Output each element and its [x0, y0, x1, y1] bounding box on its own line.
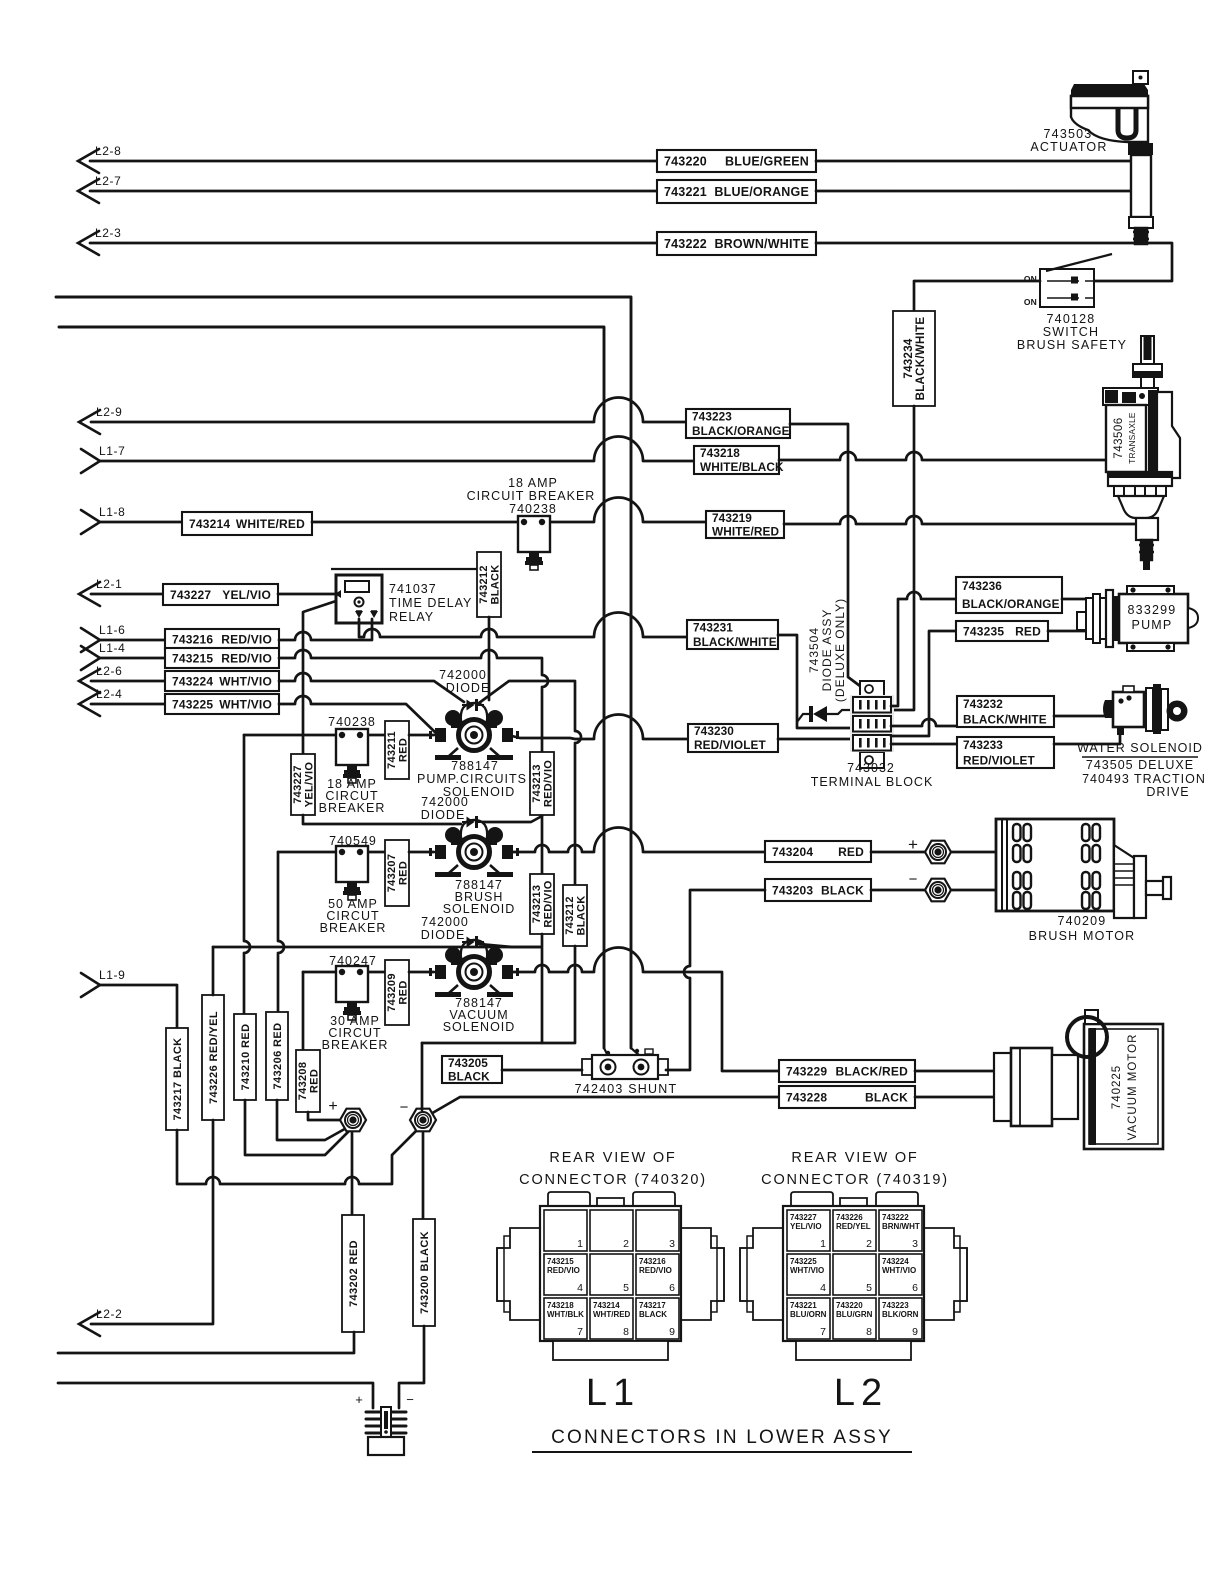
wire relay to label 743231: [359, 613, 687, 638]
svg-text:743217: 743217: [639, 1301, 666, 1310]
svg-text:BLK/ORN: BLK/ORN: [882, 1310, 919, 1319]
svg-text:743221: 743221: [664, 185, 707, 199]
svg-text:BLACK: BLACK: [448, 1069, 490, 1083]
svg-text:L2-6: L2-6: [96, 664, 122, 678]
svg-text:743213: 743213: [531, 764, 543, 803]
svg-text:L1-6: L1-6: [99, 623, 125, 637]
switch 740128 brush safety: [1040, 254, 1112, 307]
svg-text:788147: 788147: [451, 759, 499, 773]
connector pin arrow L2-7: [78, 174, 121, 203]
svg-text:743211: 743211: [386, 731, 398, 769]
svg-text:L1: L1: [586, 1372, 640, 1414]
svg-text:BREAKER: BREAKER: [320, 921, 387, 935]
wire label 743203 BLACK: [765, 879, 871, 901]
svg-text:740209: 740209: [1058, 914, 1107, 928]
wire label 743231 BLACK/WHITE: [687, 620, 778, 649]
wire label 743204 RED: [765, 841, 871, 862]
wire bus B (right vertical bus): [56, 297, 631, 1048]
wire relay to 743227 vertical label: [303, 601, 336, 754]
svg-text:RED/VIO: RED/VIO: [543, 880, 555, 927]
svg-text:ACTUATOR: ACTUATOR: [1030, 140, 1107, 154]
wire L1-6 to label: [100, 639, 165, 642]
wire label 743224 WHT/VIO: [165, 671, 279, 691]
wire brush row corner down to 743206: [278, 852, 284, 1012]
svg-text:WHITE/BLACK: WHITE/BLACK: [700, 460, 784, 474]
svg-text:L2-7: L2-7: [95, 174, 121, 188]
wire label 743208 RED: [296, 1050, 321, 1112]
wire vacuum diode to 947 line: [479, 944, 512, 947]
wire terminal block row1 to 743236: [891, 592, 956, 706]
svg-text:743217 BLACK: 743217 BLACK: [172, 1037, 184, 1120]
svg-text:DIODE: DIODE: [421, 808, 466, 822]
diode assy 743504 (deluxe only): [797, 706, 854, 722]
wire 743208 to plus stud: [308, 1112, 341, 1120]
wire 743211 to pump solenoid: [409, 734, 434, 737]
wire L2-8 to label: [90, 160, 657, 163]
svg-text:L2-9: L2-9: [96, 405, 122, 419]
svg-text:−: −: [400, 1099, 409, 1116]
svg-text:RED: RED: [1015, 624, 1041, 638]
svg-text:5: 5: [623, 1282, 629, 1294]
wire label 743202 RED: [342, 1215, 364, 1332]
svg-text:(DELUXE ONLY): (DELUXE ONLY): [833, 598, 847, 702]
svg-text:SWITCH: SWITCH: [1043, 325, 1100, 339]
wire 743221 to actuator: [816, 190, 1131, 193]
svg-text:BLACK/RED: BLACK/RED: [836, 1064, 909, 1078]
svg-text:L2: L2: [834, 1372, 888, 1414]
wire 743207 to brush solenoid: [409, 851, 434, 854]
wire label 743220 BLUE/GREEN: [657, 150, 816, 172]
svg-text:BLACK: BLACK: [490, 565, 502, 605]
wire 743200 to charger plug minus: [399, 1326, 424, 1408]
svg-text:RED: RED: [398, 738, 410, 762]
svg-text:VACUUM MOTOR: VACUUM MOTOR: [1127, 1034, 1139, 1141]
wire terminal block row3 to 743233: [891, 743, 957, 746]
svg-text:BRUSH MOTOR: BRUSH MOTOR: [1029, 929, 1136, 943]
svg-text:743226 RED/YEL: 743226 RED/YEL: [208, 1011, 220, 1104]
svg-text:743506: 743506: [1113, 417, 1125, 458]
svg-text:RED: RED: [398, 861, 410, 885]
svg-text:DIODE: DIODE: [446, 681, 491, 695]
solenoid 788147 brush: [429, 820, 519, 877]
wire label 743212 BLACK (upper): [477, 552, 502, 617]
svg-text:743204: 743204: [772, 845, 813, 859]
battery charger plug symbol: [366, 1407, 406, 1455]
wire 743223 to terminal block tab: [790, 424, 860, 686]
wire 743205 to shunt: [502, 1069, 582, 1072]
svg-text:833299: 833299: [1128, 603, 1177, 617]
wire label 743227 YEL/VIO: [163, 584, 278, 605]
svg-text:ON: ON: [1024, 274, 1037, 284]
terminal stud plus (brush motor): [925, 841, 951, 864]
transaxle 743506 symbol: [1103, 336, 1180, 570]
wire label 743209 RED: [385, 960, 410, 1025]
wire L1-4 to label: [100, 657, 165, 660]
svg-text:YEL/VIO: YEL/VIO: [304, 762, 316, 808]
wire 743225 to pump row: [279, 696, 438, 735]
wire label 743205 BLACK: [442, 1056, 502, 1084]
wire 947 feeder (743226 to solenoid diodes): [213, 946, 540, 949]
svg-text:743223: 743223: [692, 409, 732, 423]
svg-text:743235: 743235: [963, 624, 1004, 638]
svg-text:743218: 743218: [700, 446, 740, 460]
wire label 743213 RED/VIO (upper): [530, 752, 555, 815]
svg-text:3: 3: [912, 1238, 918, 1250]
diode 742000 (vacuum): [462, 936, 484, 948]
svg-text:743231: 743231: [693, 620, 733, 634]
battery stud minus: [410, 1109, 436, 1132]
circuit breaker 740549 (50 amp): [336, 846, 368, 900]
svg-text:BLACK/WHITE: BLACK/WHITE: [963, 712, 1047, 726]
svg-text:743209: 743209: [386, 973, 398, 1012]
svg-text:L1-4: L1-4: [99, 641, 125, 655]
svg-text:742000: 742000: [421, 915, 469, 929]
svg-text:BLUE/ORANGE: BLUE/ORANGE: [714, 185, 809, 199]
svg-text:L1-9: L1-9: [99, 968, 125, 982]
wire label 743212 BLACK (lower): [563, 885, 588, 946]
actuator 743503 symbol: [1071, 71, 1153, 244]
svg-text:740238: 740238: [509, 502, 557, 516]
svg-text:742403 SHUNT: 742403 SHUNT: [575, 1082, 678, 1096]
wire pump row from corner to breaker: [244, 734, 385, 737]
svg-text:743223: 743223: [882, 1301, 909, 1310]
water solenoid symbol: [1103, 684, 1188, 735]
wire minus terminal to brush motor: [951, 889, 996, 892]
wire riser into minus stud: [421, 1043, 424, 1110]
wire label 743234 BLACK/WHITE: [893, 311, 935, 406]
svg-text:740128: 740128: [1047, 312, 1096, 326]
wire brush row from corner to breaker: [278, 851, 385, 854]
svg-text:743208: 743208: [297, 1062, 309, 1101]
svg-text:YEL/VIO: YEL/VIO: [222, 588, 271, 602]
svg-text:WHT/VIO: WHT/VIO: [882, 1266, 916, 1275]
wire label 743228 BLACK: [779, 1086, 915, 1108]
wire label 743213 RED/VIO (lower): [530, 874, 555, 934]
wire label 743221 BLUE/ORANGE: [657, 180, 816, 203]
wire 743229 to vacuum motor: [915, 1070, 994, 1073]
svg-text:743212: 743212: [478, 565, 490, 604]
svg-text:L2-4: L2-4: [96, 687, 122, 701]
svg-text:743205: 743205: [448, 1056, 488, 1070]
wire L2-7 to label: [90, 190, 657, 193]
svg-text:−: −: [909, 871, 918, 888]
svg-text:743218: 743218: [547, 1301, 574, 1310]
svg-text:YEL/VIO: YEL/VIO: [790, 1222, 822, 1231]
circuit breaker 740238 (18 amp, top): [518, 516, 550, 570]
svg-text:5: 5: [866, 1282, 872, 1294]
wire label 743227 YEL/VIO (vertical): [291, 754, 316, 815]
svg-text:4: 4: [577, 1282, 583, 1294]
svg-text:743228: 743228: [786, 1090, 827, 1104]
svg-text:4: 4: [820, 1282, 826, 1294]
svg-text:740493 TRACTION: 740493 TRACTION: [1082, 772, 1206, 786]
svg-text:743222: 743222: [664, 237, 707, 251]
svg-text:743214: 743214: [593, 1301, 620, 1310]
connector pin arrow L1-9: [81, 968, 125, 997]
svg-text:L1-7: L1-7: [99, 444, 125, 458]
svg-text:BROWN/WHITE: BROWN/WHITE: [714, 237, 809, 251]
svg-text:WHT/RED: WHT/RED: [593, 1310, 631, 1319]
svg-text:6: 6: [669, 1282, 675, 1294]
wire label 743232 BLACK/WHITE: [957, 696, 1054, 727]
svg-text:743224: 743224: [172, 674, 213, 688]
svg-text:DIODE: DIODE: [421, 928, 466, 942]
svg-text:743227: 743227: [790, 1213, 817, 1222]
connector pin arrow L1-7: [81, 444, 125, 473]
wire L1-9 to label 743217: [100, 985, 177, 1028]
svg-text:CONNECTOR (740320): CONNECTOR (740320): [519, 1172, 707, 1188]
svg-text:REAR VIEW OF: REAR VIEW OF: [549, 1150, 676, 1166]
svg-text:9: 9: [669, 1326, 675, 1338]
pump 833299 symbol: [1077, 586, 1198, 651]
wire label 743236 BLACK/ORANGE: [956, 577, 1062, 613]
shunt 742403 symbol: [582, 1048, 668, 1079]
svg-text:743220: 743220: [836, 1301, 863, 1310]
svg-text:743504: 743504: [807, 627, 821, 673]
svg-text:743203: 743203: [772, 883, 813, 897]
svg-text:743227: 743227: [292, 765, 304, 804]
wire 743213 to 947 line and down: [512, 934, 542, 1043]
svg-text:WHT/VIO: WHT/VIO: [219, 674, 272, 688]
wire minus stud down to 743200: [422, 1133, 425, 1219]
wire 743227 to relay: [278, 593, 336, 596]
wire 743212 to pump diode: [488, 617, 491, 700]
svg-text:743503: 743503: [1044, 127, 1093, 141]
wire 743213 to brush diode: [480, 816, 542, 822]
svg-text:DRIVE: DRIVE: [1146, 785, 1189, 799]
wire label 743210 RED: [234, 1014, 256, 1100]
svg-text:BLACK/WHITE: BLACK/WHITE: [915, 317, 927, 401]
wire 743212 to negative stud riser: [422, 946, 575, 1043]
connector pin arrow L2-1: [79, 577, 122, 606]
svg-text:WHT/BLK: WHT/BLK: [547, 1310, 584, 1319]
svg-text:RED: RED: [309, 1069, 321, 1093]
svg-text:743206 RED: 743206 RED: [272, 1023, 284, 1090]
svg-text:743225: 743225: [172, 697, 213, 711]
wire 743215 to pump solenoid junction: [279, 650, 548, 737]
wire label 743211 RED: [385, 721, 410, 779]
wire brush solenoid to label 743204: [508, 827, 765, 852]
wire label 743206 RED: [266, 1012, 288, 1100]
wire 743226 to L2-2: [91, 1120, 213, 1324]
svg-text:TERMINAL BLOCK: TERMINAL BLOCK: [811, 775, 934, 789]
wire bus A (left vertical bus): [59, 327, 604, 1048]
svg-text:PUMP: PUMP: [1132, 618, 1173, 632]
wire 743232 to water solenoid: [1054, 715, 1113, 718]
wire terminal block row2 to 743232: [891, 719, 957, 726]
connector pin arrow L2-4: [79, 687, 122, 716]
svg-text:743219: 743219: [712, 511, 752, 525]
svg-text:743234: 743234: [903, 338, 915, 378]
wire vacuum row corner down to 743208: [302, 972, 305, 1050]
wire label 743229 BLACK/RED: [779, 1060, 915, 1082]
svg-text:L2-3: L2-3: [95, 226, 121, 240]
svg-text:743225: 743225: [790, 1257, 817, 1266]
svg-text:3: 3: [669, 1238, 675, 1250]
wire 743228 to vacuum motor: [915, 1096, 994, 1099]
connector pin arrow L1-6: [81, 623, 125, 652]
connector pin arrow L2-2: [79, 1307, 122, 1336]
svg-text:743207: 743207: [386, 854, 398, 893]
wire 743203 to minus terminal: [871, 889, 925, 892]
relay 741037 time delay: [331, 569, 477, 623]
svg-text:REAR VIEW OF: REAR VIEW OF: [791, 1150, 918, 1166]
svg-text:BREAKER: BREAKER: [322, 1038, 389, 1052]
wire label 743200 BLACK: [413, 1219, 435, 1326]
svg-text:BREAKER: BREAKER: [319, 801, 386, 815]
svg-text:743032: 743032: [847, 761, 895, 775]
svg-text:−: −: [406, 1392, 414, 1407]
svg-text:743212: 743212: [564, 896, 576, 935]
svg-text:743224: 743224: [882, 1257, 909, 1266]
svg-text:8: 8: [623, 1326, 629, 1338]
wire 743227 to brush solenoid diode: [303, 815, 461, 824]
svg-text:+: +: [328, 1098, 337, 1115]
svg-text:9: 9: [912, 1326, 918, 1338]
wire label 743222 BROWN/WHITE: [657, 232, 816, 255]
wire 743234 to switch: [914, 281, 1040, 311]
wire plus terminal to brush motor: [951, 851, 996, 854]
svg-text:743213: 743213: [531, 885, 543, 924]
svg-text:1: 1: [820, 1238, 826, 1250]
wire 743214 to breaker and label 743219: [312, 498, 706, 523]
svg-text:743222: 743222: [882, 1213, 909, 1222]
svg-text:743216: 743216: [172, 632, 213, 646]
svg-text:TRANSAXLE: TRANSAXLE: [1128, 412, 1137, 464]
svg-text:BLACK: BLACK: [576, 896, 588, 936]
svg-text:743505 DELUXE: 743505 DELUXE: [1086, 758, 1194, 772]
wire label 743226 RED/YEL: [202, 995, 224, 1120]
wire minus stud to label 743228: [429, 1097, 779, 1115]
wire junction 743215 to 743213: [541, 737, 544, 752]
svg-text:BLACK/ORANGE: BLACK/ORANGE: [962, 597, 1060, 611]
wire 743202 to lower left: [58, 1332, 354, 1353]
wire label 743214 WHITE/RED: [182, 512, 312, 535]
wire 743209 to vacuum solenoid: [409, 971, 434, 974]
wire 743210 to plus stud: [245, 1100, 352, 1155]
svg-text:WHITE/RED: WHITE/RED: [712, 524, 779, 538]
diode 742000 (brush): [462, 816, 484, 828]
svg-text:7: 7: [820, 1326, 826, 1338]
svg-text:742000: 742000: [421, 795, 469, 809]
svg-text:BRN/WHT: BRN/WHT: [882, 1222, 920, 1231]
wire label 743219 WHITE/RED: [706, 511, 784, 539]
svg-text:743221: 743221: [790, 1301, 817, 1310]
svg-text:743202 RED: 743202 RED: [348, 1240, 360, 1307]
svg-text:+: +: [355, 1392, 363, 1407]
svg-text:743229: 743229: [786, 1064, 827, 1078]
wire label 743223 BLACK/ORANGE: [686, 409, 790, 438]
svg-text:WHT/VIO: WHT/VIO: [790, 1266, 824, 1275]
wire plus stud down to 743202: [351, 1133, 354, 1215]
svg-text:743216: 743216: [639, 1257, 666, 1266]
svg-text:RED/VIO: RED/VIO: [543, 760, 555, 807]
wire 743218 to transaxle: [779, 452, 1106, 460]
svg-text:RED: RED: [398, 980, 410, 1004]
svg-text:743226: 743226: [836, 1213, 863, 1222]
svg-text:TIME DELAY: TIME DELAY: [389, 596, 472, 610]
wire L2-1 to label: [91, 593, 163, 596]
wire pump diode to 743212 lower: [479, 681, 581, 885]
wire 743213 down past brush row: [541, 816, 544, 874]
battery stud plus: [340, 1109, 366, 1132]
wire label 743230 RED/VIOLET: [688, 724, 778, 752]
svg-text:BLU/ORN: BLU/ORN: [790, 1310, 827, 1319]
wire label 743233 RED/VIOLET: [957, 737, 1054, 768]
wire vacuum row from corner to breaker: [303, 971, 385, 974]
wire L1-7 to label 743218: [100, 437, 694, 462]
svg-text:CIRCUIT BREAKER: CIRCUIT BREAKER: [467, 489, 596, 503]
wire label 743207 RED: [385, 840, 410, 906]
wire L2-6 to label: [91, 680, 165, 683]
svg-text:ON: ON: [1024, 297, 1037, 307]
svg-text:2: 2: [866, 1238, 872, 1250]
svg-text:RELAY: RELAY: [389, 610, 434, 624]
brush motor 740209 symbol: [996, 819, 1171, 918]
svg-text:741037: 741037: [389, 582, 437, 596]
svg-text:+: +: [908, 835, 918, 854]
svg-text:SOLENOID: SOLENOID: [443, 1020, 516, 1034]
svg-text:RED/YEL: RED/YEL: [836, 1222, 871, 1231]
svg-text:BLACK: BLACK: [639, 1310, 667, 1319]
svg-text:BLACK/ORANGE: BLACK/ORANGE: [692, 424, 790, 438]
svg-text:WATER SOLENOID: WATER SOLENOID: [1077, 741, 1203, 755]
svg-text:CONNECTORS IN LOWER ASSY: CONNECTORS IN LOWER ASSY: [551, 1427, 893, 1448]
svg-text:RED/VIO: RED/VIO: [547, 1266, 580, 1275]
connector pin arrow L2-8: [78, 144, 121, 173]
svg-text:1: 1: [577, 1238, 583, 1250]
wire L2-9 to label 743223: [91, 398, 686, 423]
svg-text:18 AMP: 18 AMP: [508, 476, 558, 490]
connector pin arrow L1-8: [81, 505, 125, 534]
wire label 743218 WHITE/BLACK: [694, 446, 784, 474]
svg-text:BLACK: BLACK: [865, 1090, 908, 1104]
terminal block 743032: [850, 681, 894, 768]
wire pump solenoid to label 743230: [508, 715, 688, 740]
connector pin arrow L2-3: [78, 226, 121, 255]
svg-text:6: 6: [912, 1282, 918, 1294]
wire 743222 to brush safety switch: [816, 243, 1172, 281]
svg-text:BLU/GRN: BLU/GRN: [836, 1310, 873, 1319]
wire 743234 to terminal block: [891, 406, 914, 710]
svg-text:743210 RED: 743210 RED: [240, 1024, 252, 1091]
svg-text:CONNECTOR (740319): CONNECTOR (740319): [761, 1172, 949, 1188]
svg-text:RED/VIO: RED/VIO: [639, 1266, 672, 1275]
svg-text:743236: 743236: [962, 579, 1002, 593]
svg-text:RED/VIOLET: RED/VIOLET: [963, 753, 1035, 767]
svg-text:L1-8: L1-8: [99, 505, 125, 519]
wire 743230 to terminal block: [778, 738, 854, 741]
wire label 743225 WHT/VIO: [165, 694, 279, 714]
wire 743216 to relay pin: [279, 619, 372, 640]
wire 743206 to plus stud: [277, 1100, 350, 1140]
wire 743235 to pump: [1048, 630, 1086, 633]
wire pump row corner down to 743210: [244, 735, 250, 1014]
wire 743219 to transaxle: [784, 516, 1138, 524]
wire 743217 to minus stud: [177, 1125, 422, 1184]
svg-text:WHT/VIO: WHT/VIO: [219, 697, 272, 711]
svg-text:BLACK: BLACK: [821, 883, 864, 897]
svg-text:743214: 743214: [189, 517, 230, 531]
svg-text:L2-8: L2-8: [95, 144, 121, 158]
terminal stud minus (brush motor): [925, 879, 951, 902]
wire 743220 to actuator: [816, 160, 1131, 163]
svg-text:RED/VIO: RED/VIO: [221, 651, 272, 665]
wire vacuum solenoid to label 743229: [508, 948, 779, 1072]
svg-text:RED/VIOLET: RED/VIOLET: [694, 738, 766, 752]
wire 743203 to shunt: [666, 890, 765, 1070]
wire 743236 to pump: [1062, 598, 1086, 601]
